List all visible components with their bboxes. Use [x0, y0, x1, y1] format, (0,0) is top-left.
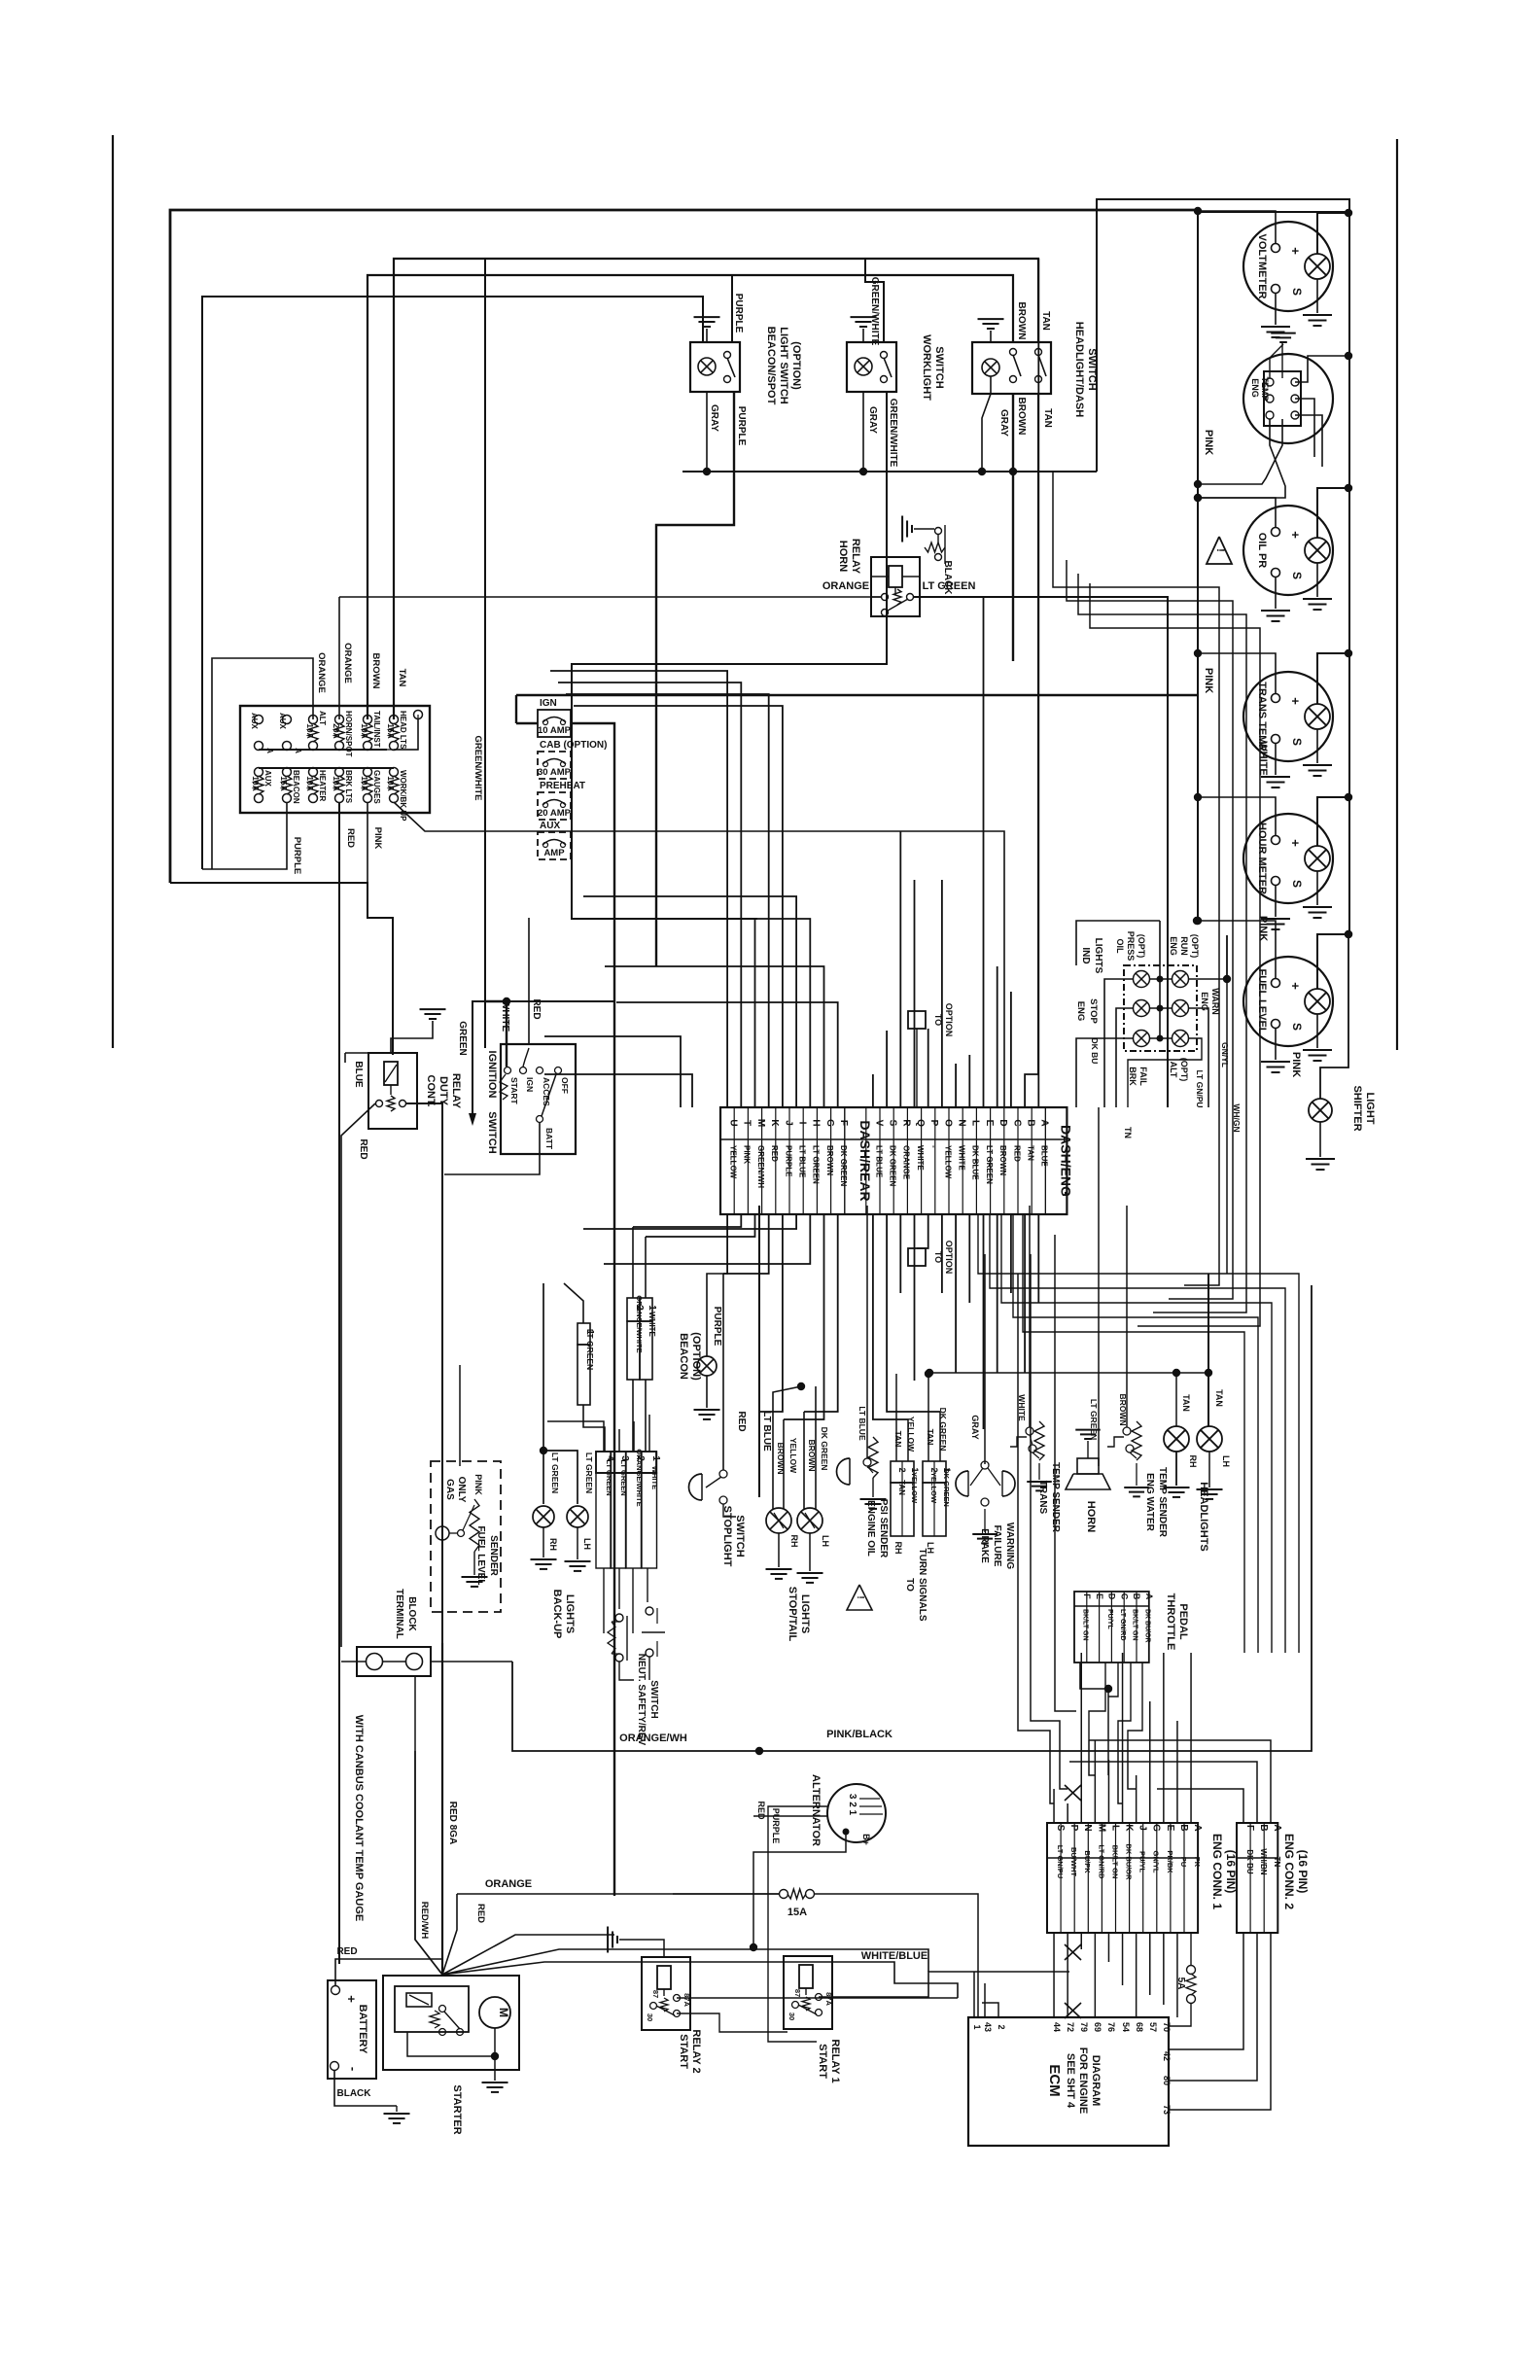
- wire headlight brown down: [1012, 394, 1014, 472]
- svg-text:AMP: AMP: [543, 848, 565, 858]
- svg-text:T: T: [742, 1120, 752, 1126]
- svg-text:54: 54: [1121, 2022, 1131, 2032]
- svg-text:PURPLE: PURPLE: [292, 837, 302, 875]
- ground OIL PR lamp: [1316, 563, 1318, 597]
- ground start relay 2: [619, 1940, 664, 1957]
- svg-text:TAIL/INST: TAIL/INST: [372, 711, 381, 748]
- svg-text:TERMINAL: TERMINAL: [394, 1589, 404, 1639]
- svg-text:WITH CANBUS COOLANT TEMP GAUGE: WITH CANBUS COOLANT TEMP GAUGE: [353, 1715, 365, 1921]
- wire worklight gray down to bus: [862, 392, 864, 472]
- wire stair extra 2: [544, 1074, 692, 1107]
- fuse BRK LTS bottom row: [335, 768, 344, 777]
- svg-text:10A: 10A: [305, 723, 315, 739]
- svg-text:TURN SIGNALS: TURN SIGNALS: [917, 1549, 927, 1622]
- svg-text:IGNITION: IGNITION: [486, 1051, 498, 1099]
- svg-text:PU/YL: PU/YL: [1106, 1609, 1113, 1629]
- ground HOUR METER sender: [1275, 885, 1277, 917]
- lamp backup RH: [533, 1506, 554, 1527]
- wire cross x2: [1065, 1944, 1081, 1960]
- relay START RELAY 2: [642, 1957, 690, 2030]
- wire bundle lower right verticals: [1226, 935, 1228, 1274]
- fuse HEAD LTS top row: [390, 716, 399, 724]
- wire eng temp pins: [1295, 356, 1348, 382]
- ground HOUR METER lamp: [1316, 871, 1318, 905]
- ground eng temp top: [1270, 344, 1283, 378]
- svg-text:HORN: HORN: [837, 541, 849, 572]
- svg-text:87A: 87A: [824, 1992, 833, 2006]
- svg-text:PINK: PINK: [1290, 1052, 1302, 1077]
- svg-text:FUEL LEVEL: FUEL LEVEL: [1256, 968, 1268, 1033]
- svg-text:WHITE: WHITE: [958, 1145, 966, 1171]
- svg-text:OPTION: OPTION: [944, 1241, 954, 1275]
- wires eng conn 1 up: [1053, 1789, 1055, 1823]
- wire bundle strip right to engconn: [978, 1214, 1299, 1653]
- warning triangle oil pr: [1207, 537, 1232, 564]
- svg-text:SWITCH: SWITCH: [648, 1680, 659, 1718]
- wire terminal block redwh down: [414, 1676, 416, 1751]
- lamp shifter light: [1309, 1099, 1332, 1122]
- svg-text:TAN: TAN: [397, 669, 407, 687]
- wire TRANS TEMP plus to bus: [1198, 653, 1276, 694]
- wire cont relay contact left: [341, 1103, 375, 1647]
- svg-text:RED: RED: [756, 1801, 766, 1820]
- wire fuse purple down: [202, 802, 287, 869]
- ground brake: [984, 1509, 986, 1532]
- wire HOUR METER plus to bus: [1198, 797, 1276, 836]
- wire brake up: [984, 1254, 986, 1464]
- wire ind bus top: [1076, 921, 1160, 965]
- svg-text:+: +: [1288, 697, 1303, 705]
- wire green arrow: [472, 1001, 485, 1113]
- svg-text:M: M: [497, 2008, 510, 2017]
- wire feed into relay area: [170, 883, 393, 1055]
- svg-text:10A: 10A: [305, 776, 315, 791]
- svg-text:PURPLE: PURPLE: [733, 294, 744, 333]
- wire switches common bus: [682, 471, 1097, 472]
- wire strip B tan to bus: [1025, 1074, 1038, 1107]
- wire orange bottom: [673, 1893, 779, 1895]
- wire backup lamps: [542, 1283, 544, 1504]
- wire horn up: [1098, 1107, 1100, 1466]
- svg-text:GAUGES: GAUGES: [372, 770, 381, 804]
- indicator lights block: [1124, 965, 1197, 1051]
- svg-text:2: 2: [997, 2024, 1006, 2029]
- svg-text:PURPLE: PURPLE: [712, 1307, 722, 1347]
- starter box: [383, 1976, 519, 2070]
- wire battery minus ground: [334, 2071, 397, 2106]
- svg-text:HEATER: HEATER: [318, 770, 327, 802]
- horn speaker: [1077, 1458, 1099, 1474]
- svg-text:76: 76: [1106, 2022, 1116, 2032]
- lamp backup LH: [567, 1506, 588, 1527]
- sender ENG WATER TEMP SENDER: [1107, 1437, 1124, 1447]
- lamp of HOUR METER: [1305, 846, 1330, 871]
- svg-text:87A: 87A: [682, 1993, 691, 2007]
- svg-text:RED: RED: [736, 1411, 747, 1431]
- left fold mark: [112, 135, 114, 1048]
- lamp of TRANS TEMP: [1305, 704, 1330, 729]
- ground cont duty relay: [391, 1021, 433, 1053]
- wire watertemp up: [1126, 1206, 1128, 1427]
- svg-text:LT GREEN: LT GREEN: [985, 1145, 994, 1184]
- svg-text:LT GREEN: LT GREEN: [550, 1452, 560, 1493]
- svg-text:LT BLUE: LT BLUE: [798, 1145, 807, 1178]
- svg-text:-: -: [346, 2067, 361, 2071]
- wire main feed top border: [170, 210, 1198, 883]
- svg-text:ORANGE: ORANGE: [316, 652, 327, 693]
- ground TRANS TEMP sender: [1275, 743, 1277, 775]
- sender FUEL LEVEL SENDER: [431, 1461, 501, 1612]
- wire psi up: [866, 1206, 868, 1458]
- svg-text:P: P: [928, 1120, 939, 1127]
- svg-text:RED: RED: [1012, 1145, 1021, 1162]
- svg-text:OFF: OFF: [560, 1077, 570, 1094]
- svg-text:PINK: PINK: [743, 1145, 752, 1164]
- svg-text:ORANGE: ORANGE: [822, 580, 869, 592]
- svg-text:C: C: [1011, 1119, 1022, 1126]
- svg-text:RUN: RUN: [1179, 936, 1189, 956]
- svg-text:SHIFTER: SHIFTER: [1351, 1085, 1363, 1131]
- svg-text:GRAY: GRAY: [867, 406, 878, 434]
- switch STOPLIGHT: [689, 1474, 703, 1500]
- svg-text:THROTTLE: THROTTLE: [1165, 1593, 1176, 1651]
- wire beacon gray down: [706, 392, 708, 472]
- svg-text:3 2 1: 3 2 1: [847, 1794, 857, 1816]
- svg-text:GN/YL: GN/YL: [1152, 1851, 1161, 1873]
- wire cross x3: [1065, 2003, 1081, 2018]
- svg-text:30: 30: [787, 2012, 796, 2020]
- svg-text:RH: RH: [548, 1538, 558, 1551]
- svg-text:PRESS: PRESS: [1126, 931, 1136, 962]
- svg-text:TEMP: TEMP: [1260, 376, 1270, 401]
- fuse IGN 10 AMP: [538, 710, 571, 737]
- svg-text:LT GREEN: LT GREEN: [812, 1145, 821, 1184]
- wire OIL PR lamp to bus: [1317, 488, 1348, 538]
- svg-text:BRK LTS: BRK LTS: [344, 770, 353, 804]
- gauge TRANS TEMP: [1243, 672, 1333, 761]
- svg-text:LT GREEN: LT GREEN: [584, 1452, 594, 1493]
- wire start relay links: [677, 1997, 958, 1999]
- wire FUEL LEVEL plus to bus: [1198, 921, 1276, 979]
- svg-text:LT GREEN: LT GREEN: [585, 1329, 595, 1370]
- wire fuse pink down: [367, 802, 368, 883]
- svg-text:69: 69: [1093, 2022, 1102, 2032]
- fuse AUX top row: [255, 716, 263, 724]
- svg-text:PINK/BLACK: PINK/BLACK: [826, 1729, 892, 1740]
- svg-text:RED 8GA: RED 8GA: [447, 1802, 458, 1844]
- svg-text:TO: TO: [933, 1014, 943, 1026]
- lamp stop/tail RH: [766, 1508, 791, 1533]
- svg-text:LT GREEN: LT GREEN: [605, 1459, 613, 1495]
- svg-text:RED: RED: [770, 1145, 779, 1162]
- svg-text:E: E: [984, 1120, 995, 1127]
- svg-text:J: J: [783, 1120, 793, 1126]
- svg-text:ORANGE: ORANGE: [342, 643, 353, 683]
- svg-text:PURPLE: PURPLE: [771, 1808, 781, 1844]
- svg-text:10A: 10A: [251, 776, 261, 791]
- ground OIL PR sender: [1275, 577, 1277, 609]
- svg-text:LH: LH: [582, 1538, 592, 1550]
- svg-text:B+: B+: [861, 1834, 871, 1845]
- wire worklight green/white top: [485, 259, 884, 1048]
- svg-text:ENG CONN. 2: ENG CONN. 2: [1282, 1834, 1296, 1909]
- svg-text:TAN: TAN: [893, 1431, 903, 1448]
- wire bundle right staircase upper: [1053, 472, 1219, 1285]
- svg-text:BEACON: BEACON: [292, 770, 300, 804]
- svg-text:AUX: AUX: [278, 713, 287, 730]
- ground watertemp: [1136, 1463, 1137, 1486]
- gauge FUEL LEVEL: [1243, 957, 1333, 1046]
- svg-text:RH: RH: [789, 1535, 799, 1548]
- svg-text:CONT.: CONT.: [425, 1075, 437, 1107]
- wire gauge plus bus PINK: [1197, 211, 1199, 921]
- svg-text:GN/YL: GN/YL: [1220, 1042, 1230, 1067]
- svg-text:IGN: IGN: [540, 698, 557, 709]
- svg-text:42: 42: [1162, 2051, 1172, 2061]
- wire cont relay blue: [345, 1052, 384, 1054]
- wire beacon purple down: [656, 392, 734, 966]
- svg-text:15A: 15A: [279, 776, 289, 791]
- connector TO OPTION upper: [908, 1011, 926, 1029]
- wire alt red: [753, 1815, 828, 1817]
- svg-text:BROWN: BROWN: [1016, 302, 1027, 340]
- sender ENGINE OIL PSI SENDER: [836, 1458, 850, 1485]
- svg-text:DK GREEN: DK GREEN: [889, 1145, 897, 1186]
- svg-text:DK BLUE: DK BLUE: [971, 1145, 980, 1180]
- wire cross x1: [1065, 1785, 1081, 1801]
- wire battery plus: [335, 1959, 442, 1985]
- svg-text:HOUR METER: HOUR METER: [1256, 822, 1268, 894]
- wire 15a left: [457, 1893, 779, 1895]
- wire horn relay lt green: [914, 597, 1168, 1107]
- ground trans sender: [1038, 1463, 1040, 1480]
- switch HEADLIGHT/DASH SWITCH: [972, 342, 1051, 394]
- svg-text:U: U: [728, 1119, 739, 1126]
- svg-text:BK/LT GN: BK/LT GN: [1132, 1609, 1138, 1641]
- svg-text:ALT: ALT: [318, 711, 327, 725]
- svg-text:BROWN: BROWN: [807, 1439, 817, 1471]
- wires strip up bundle right: [872, 1074, 874, 1107]
- switch BRAKE FAILURE WARNING: [956, 1471, 968, 1496]
- svg-text:ENG WATER: ENG WATER: [1144, 1473, 1155, 1532]
- svg-text:ORANGE: ORANGE: [485, 1878, 532, 1890]
- wire beacon conn up: [632, 1227, 634, 1298]
- svg-text:RED: RED: [358, 1138, 368, 1159]
- switch WORKLIGHT SWITCH: [847, 342, 896, 392]
- lamp of OIL PR: [1305, 538, 1330, 563]
- svg-text:WHITE: WHITE: [916, 1145, 925, 1171]
- wire starter motor down: [494, 2028, 496, 2056]
- lamp of VOLTMETER: [1305, 254, 1330, 279]
- svg-text:M: M: [755, 1119, 766, 1127]
- svg-text:2: 2: [897, 1467, 907, 1472]
- fuse BEACON bottom row: [283, 768, 292, 777]
- wire tan fuse to headlight switch: [394, 259, 1038, 719]
- wire ltblue mid: [758, 1206, 760, 1497]
- wire headlight gray diag: [982, 376, 991, 472]
- wire starter b+ fan: [415, 1751, 442, 1975]
- svg-text:15A: 15A: [386, 723, 396, 739]
- svg-text:BLOCK: BLOCK: [406, 1596, 417, 1631]
- svg-text:+: +: [1288, 982, 1303, 990]
- wire fuse orange1 up: [212, 658, 313, 869]
- fuse AUX bottom row: [255, 768, 263, 777]
- fuse block inner rails: [259, 749, 387, 751]
- warning triangle psi: [847, 1585, 872, 1610]
- svg-text:1: 1: [972, 2024, 982, 2029]
- wire bundle mid-right verticals: [1055, 1235, 1076, 1711]
- ground VOLTMETER sender: [1275, 293, 1277, 325]
- svg-text:RELAY: RELAY: [850, 539, 861, 575]
- svg-text:V: V: [873, 1120, 884, 1127]
- svg-text:YELLOW: YELLOW: [788, 1438, 798, 1474]
- wire ign fuse feed: [571, 723, 614, 1896]
- svg-text:LIGHT: LIGHT: [1364, 1093, 1376, 1125]
- switch NEUT SAFETY/REV: [615, 1614, 623, 1622]
- svg-text:TAN: TAN: [1040, 311, 1051, 331]
- svg-text:20 AMP: 20 AMP: [538, 808, 572, 819]
- svg-text:LT GREEN: LT GREEN: [923, 580, 976, 592]
- svg-text:S: S: [1290, 572, 1304, 579]
- connector turn LH: [923, 1461, 946, 1483]
- svg-text:BU/PK: BU/PK: [1083, 1850, 1092, 1873]
- svg-text:AUX: AUX: [263, 770, 272, 787]
- wires strip up bundle left: [550, 671, 727, 1107]
- wire TRANS TEMP lamp to bus: [1317, 653, 1348, 704]
- svg-text:YELLOW: YELLOW: [910, 1472, 919, 1504]
- ground TRANS TEMP lamp: [1316, 729, 1318, 763]
- svg-text:START: START: [678, 2034, 689, 2069]
- wire stoplight up: [722, 1274, 724, 1470]
- svg-text:GREEN/WHITE: GREEN/WHITE: [869, 277, 880, 346]
- svg-text:BEACON/SPOT: BEACON/SPOT: [765, 327, 777, 405]
- svg-text:S: S: [888, 1120, 898, 1127]
- svg-text:WHITE/BLUE: WHITE/BLUE: [861, 1950, 927, 1962]
- svg-text:SENDER: SENDER: [488, 1535, 499, 1576]
- svg-text:PURPLE: PURPLE: [736, 406, 747, 446]
- svg-text:GREEN/WHITE: GREEN/WHITE: [472, 735, 483, 800]
- wire ind lights center: [1159, 921, 1161, 1038]
- svg-text:70: 70: [1162, 2022, 1172, 2032]
- svg-text:LT BLUE: LT BLUE: [761, 1411, 772, 1452]
- gauge HOUR METER: [1243, 814, 1333, 903]
- svg-text:ORANGE/WH: ORANGE/WH: [619, 1732, 687, 1744]
- svg-text:HEADLIGHT/DASH: HEADLIGHT/DASH: [1073, 322, 1085, 417]
- wire ignition red: [528, 918, 530, 1044]
- svg-text:BRK: BRK: [1128, 1067, 1137, 1086]
- svg-text:PREHEAT: PREHEAT: [540, 781, 585, 791]
- svg-text:STARTER: STARTER: [451, 2084, 463, 2134]
- svg-text:GAS: GAS: [444, 1479, 455, 1500]
- svg-text:O: O: [942, 1119, 953, 1127]
- svg-text:IGN: IGN: [525, 1077, 535, 1092]
- svg-text:BEACON: BEACON: [678, 1333, 689, 1380]
- svg-text:FAILURE: FAILURE: [992, 1525, 1002, 1567]
- svg-text:YELLOW: YELLOW: [729, 1145, 738, 1179]
- svg-text:57: 57: [1148, 2022, 1158, 2032]
- wire worklight green/white down: [572, 392, 887, 919]
- wire beacon conn down: [632, 1380, 634, 1452]
- svg-text:BLUE: BLUE: [353, 1061, 364, 1088]
- svg-text:72: 72: [1066, 2022, 1075, 2032]
- svg-text:ONLY: ONLY: [456, 1477, 467, 1503]
- svg-text:ALTERNATOR: ALTERNATOR: [810, 1774, 822, 1846]
- horn relay resistor: [925, 542, 945, 552]
- svg-text:ECM: ECM: [1046, 2064, 1063, 2096]
- svg-text:ENG: ENG: [1075, 1001, 1086, 1022]
- svg-text:SWITCH: SWITCH: [1086, 348, 1098, 390]
- svg-text:CAB (OPTION): CAB (OPTION): [540, 740, 607, 751]
- svg-text:S: S: [1290, 288, 1304, 296]
- svg-text:DIAGRAM: DIAGRAM: [1090, 2055, 1102, 2107]
- svg-text:TAN: TAN: [926, 1429, 935, 1446]
- svg-text:10A: 10A: [386, 776, 396, 791]
- fuse ALT top row: [309, 716, 318, 724]
- ground VOLTMETER lamp: [1316, 279, 1318, 313]
- wire HOUR METER lamp to bus: [1317, 797, 1348, 846]
- wire cont relay contact right: [406, 1103, 442, 1975]
- svg-text:LT BLUE: LT BLUE: [857, 1406, 867, 1441]
- svg-text:S: S: [1290, 880, 1304, 888]
- svg-text:TAN: TAN: [1042, 408, 1053, 428]
- svg-text:30: 30: [646, 2013, 654, 2021]
- wires ind lights left: [1104, 979, 1134, 1107]
- svg-text:TN: TN: [1123, 1127, 1133, 1138]
- wire ignition batt down: [444, 1123, 540, 1174]
- svg-text:G: G: [1151, 1824, 1162, 1832]
- wires eng conn 2 up: [1157, 1789, 1243, 1823]
- svg-text:1: 1: [647, 1305, 657, 1311]
- svg-text:10A: 10A: [360, 776, 369, 791]
- svg-text:(OPT): (OPT): [1179, 1058, 1189, 1082]
- svg-text:PEDAL: PEDAL: [1177, 1603, 1189, 1640]
- svg-text:44: 44: [1052, 2022, 1062, 2032]
- svg-text:H: H: [811, 1119, 822, 1126]
- svg-text:S: S: [1290, 1023, 1304, 1031]
- svg-text:BROWN: BROWN: [998, 1145, 1007, 1175]
- wires stop/tail up: [773, 1386, 801, 1509]
- svg-text:TAN: TAN: [1181, 1394, 1191, 1412]
- svg-text:LIGHTS: LIGHTS: [1093, 938, 1103, 974]
- svg-text:RED: RED: [475, 1904, 486, 1923]
- svg-text:ENG: ENG: [1169, 936, 1178, 956]
- switch BEACON/SPOT LIGHT SWITCH (OPTION): [690, 342, 740, 392]
- svg-text:DK GREEN: DK GREEN: [820, 1427, 829, 1471]
- ground FUEL LEVEL lamp: [1316, 1014, 1318, 1048]
- svg-text:LH: LH: [1221, 1455, 1231, 1467]
- connector turn RH: [891, 1461, 914, 1483]
- ECM box: [968, 2017, 1169, 2146]
- svg-text:RH: RH: [1188, 1455, 1198, 1468]
- svg-text:+: +: [1288, 531, 1303, 539]
- svg-text:RED/WH: RED/WH: [419, 1902, 430, 1940]
- wire alt purple: [768, 1806, 828, 2042]
- fuse 15A: [780, 1890, 788, 1899]
- fuse AUX top row: [283, 716, 292, 724]
- wire tan from B: [1207, 1274, 1209, 1373]
- wire headlight brown further: [1012, 472, 1014, 661]
- ground psi sender: [872, 1478, 874, 1497]
- svg-text:TAN: TAN: [897, 1480, 906, 1495]
- relay HORN RELAY: [871, 557, 920, 616]
- lamp headlight LH: [1197, 1426, 1222, 1452]
- lamp stop/tail LH: [797, 1508, 822, 1533]
- svg-text:GRAY: GRAY: [998, 409, 1009, 437]
- wires strip down bundle: [726, 1214, 728, 1274]
- svg-text:R: R: [901, 1119, 912, 1127]
- svg-text:YELLOW: YELLOW: [929, 1472, 938, 1504]
- svg-text:+: +: [1288, 839, 1303, 847]
